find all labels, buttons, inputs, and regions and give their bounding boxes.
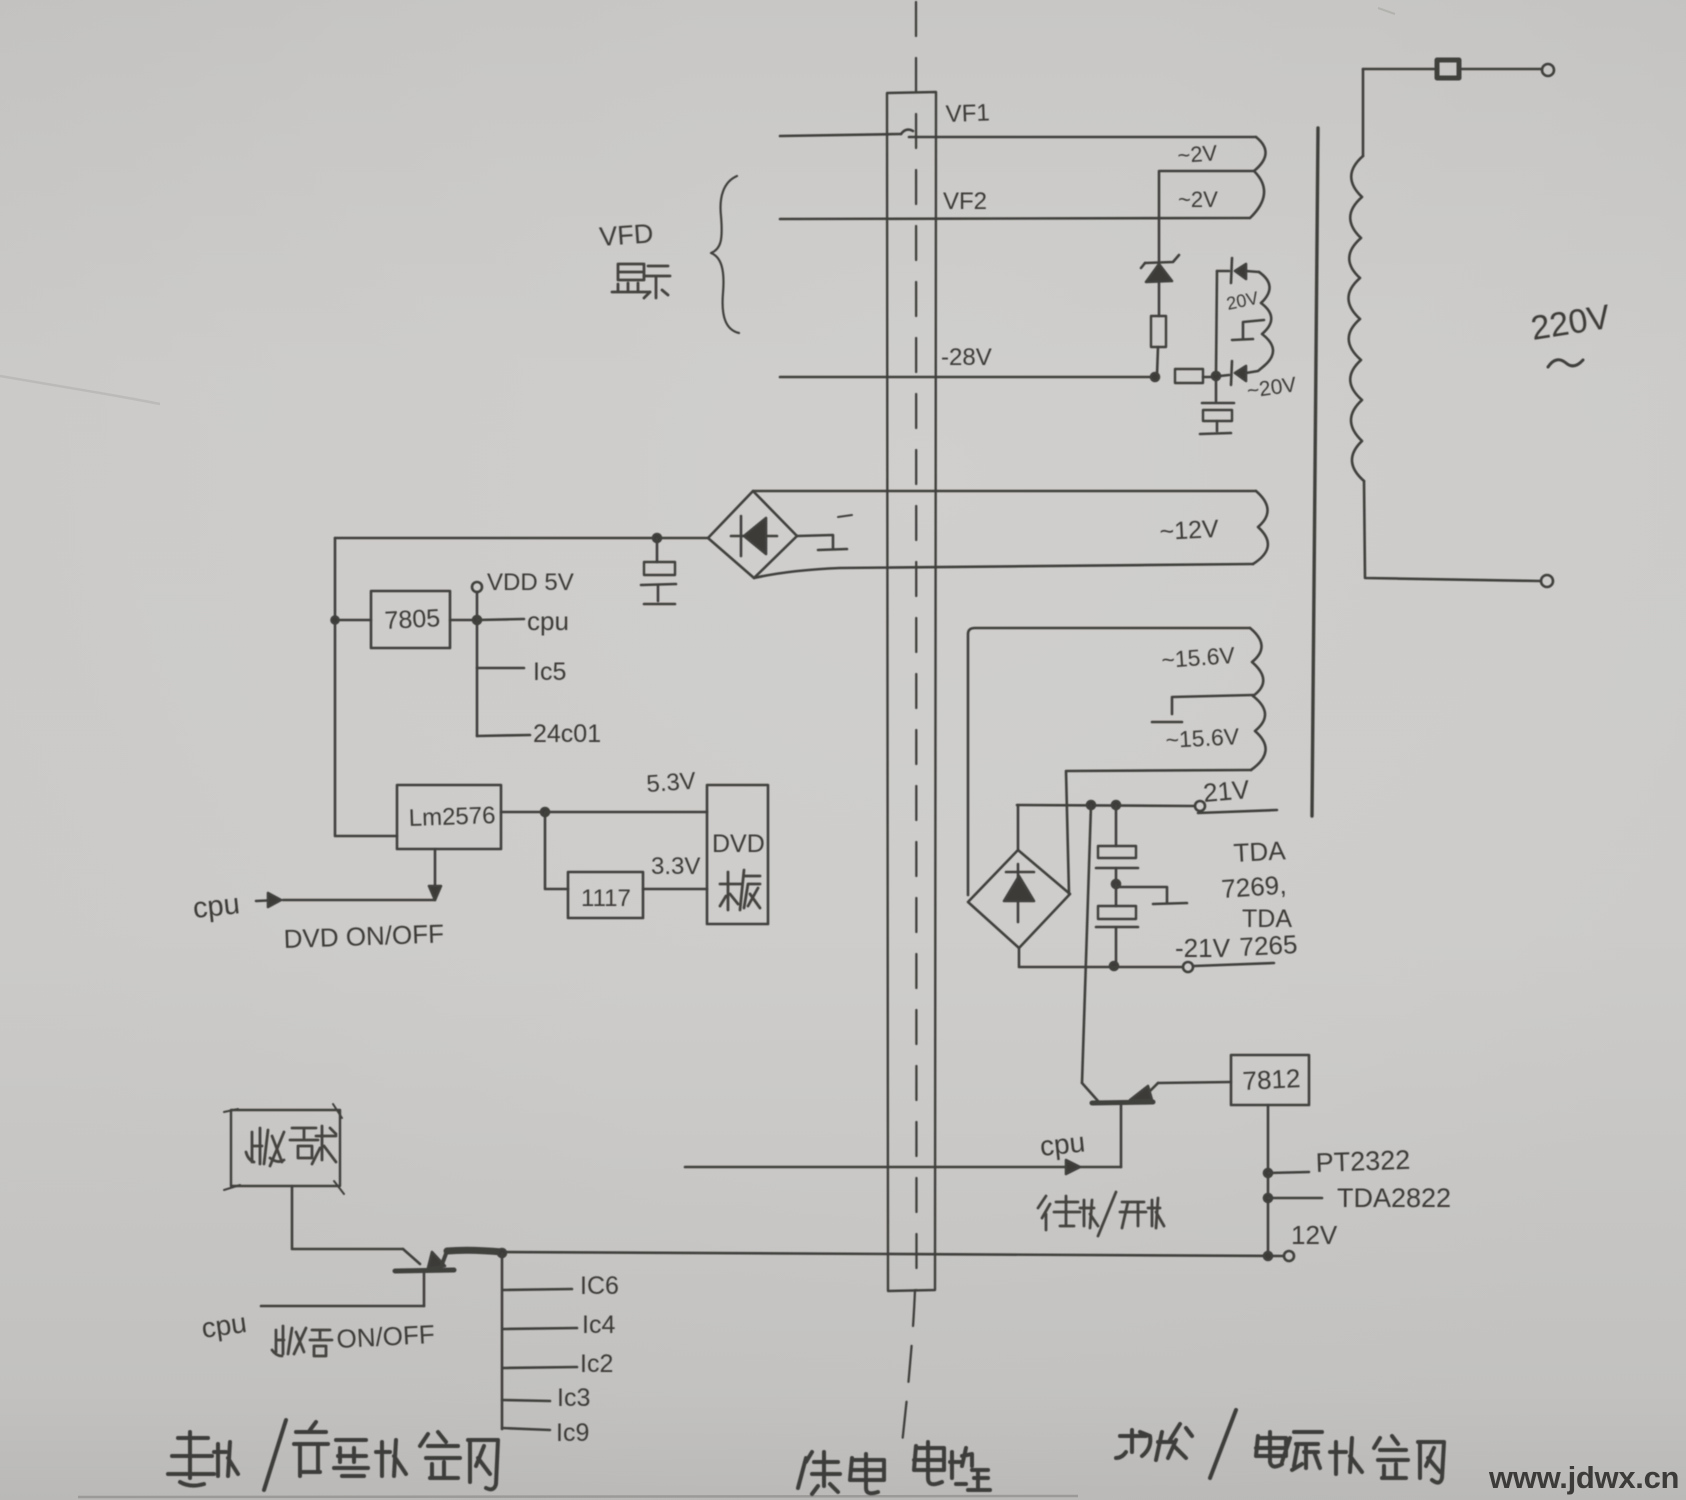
svg-text:21V: 21V: [1202, 774, 1251, 808]
svg-text:cpu: cpu: [527, 606, 569, 636]
wire B2 top corner: [1017, 805, 1020, 850]
wire to IC6: [503, 1289, 572, 1290]
label 主机/前置机箱内 (main unit / front chassis): [168, 1420, 498, 1490]
svg-text:ON/OFF: ON/OFF: [336, 1319, 436, 1354]
paper bottom edge: [78, 1496, 1078, 1497]
wire 15.6V center tap: [1172, 695, 1253, 714]
junction node on -28V wire: [1151, 373, 1159, 381]
svg-text:-21V: -21V: [1175, 933, 1231, 963]
zener diode D1: [1158, 171, 1161, 262]
label 功放/电源机箱内 (amplifier / power chassis): [1116, 1410, 1444, 1483]
wire 15.6V top: [968, 628, 1250, 895]
svg-text:cpu: cpu: [1038, 1126, 1086, 1162]
wire 5.3V to DVD: [545, 811, 707, 814]
bridge rectifier B1: [708, 491, 797, 578]
transistor Q2 (PNP pass): [1092, 1102, 1153, 1103]
svg-text:~15.6V: ~15.6V: [1165, 723, 1240, 753]
label 板 (DVD board): [720, 870, 760, 910]
svg-text:5.3V: 5.3V: [646, 768, 697, 798]
wire to TDA2822: [1264, 1194, 1272, 1202]
svg-text:DVD: DVD: [712, 830, 765, 858]
regulator 1117: [568, 872, 643, 918]
wire 3.3V to DVD: [643, 888, 707, 891]
fuse F1: [1437, 60, 1459, 78]
transformer T1 primary winding: [1362, 69, 1365, 156]
transformer T1 20V winding: [1259, 272, 1273, 366]
svg-text:cpu: cpu: [191, 888, 241, 925]
svg-text:-28V: -28V: [941, 344, 992, 371]
wire -21V rail: [1019, 948, 1182, 967]
label 220V tilde: [1548, 360, 1583, 367]
DVD board box: [707, 785, 768, 924]
svg-text:www.jdwx.cn: www.jdwx.cn: [1488, 1460, 1679, 1495]
svg-text:~2V: ~2V: [1177, 140, 1219, 168]
label 供电电路 (power supply circuit): [798, 1442, 990, 1494]
wire 7805 input: [335, 619, 371, 622]
wire IC supply drop: [498, 1249, 506, 1257]
diode D3: [1231, 258, 1232, 283]
wire cpu standby control: [685, 1166, 1121, 1169]
svg-text:7805: 7805: [384, 604, 441, 635]
transformer T1 ~12V winding: [1253, 491, 1268, 564]
divider dashed centerline: [915, 2, 918, 1290]
wire 15.6V bottom: [1066, 770, 1251, 894]
label 收音板 (radio board): [246, 1126, 336, 1166]
svg-text:7269,: 7269,: [1220, 870, 1287, 904]
transformer core: [1312, 128, 1318, 816]
wire 7805 output: [450, 619, 477, 622]
arrow cpu to dvd on/off: [256, 900, 278, 901]
wire ~12V bottom: [754, 564, 1253, 578]
terminal circle top: [1542, 64, 1554, 76]
wire left rail: [335, 538, 397, 836]
wire Q3 base: [423, 1272, 426, 1306]
svg-text:PT2322: PT2322: [1315, 1145, 1411, 1178]
wire Q3 collector (bold): [447, 1250, 502, 1252]
wire 21V down to Q2: [1082, 805, 1091, 1083]
regulator 7805: [371, 591, 450, 648]
svg-text:~15.6V: ~15.6V: [1161, 642, 1237, 673]
label 待机/开机 (standby/on): [1038, 1192, 1164, 1236]
label 收音 ON/OFF: [272, 1326, 332, 1356]
divider box (power feed bus): [887, 92, 936, 1291]
wire radio on/off control: [261, 1305, 424, 1308]
wire to IC4: [503, 1328, 577, 1329]
wire bridge B1 top / ~12V top: [753, 490, 1256, 493]
wire 7812 output rail: [1267, 1105, 1270, 1256]
wire B1 to left rail: [335, 537, 708, 540]
svg-text:7265: 7265: [1239, 929, 1298, 962]
wire tap to 20V winding top: [1216, 271, 1217, 374]
wire to CPU: [477, 619, 524, 620]
resistor R1: [1151, 316, 1166, 347]
wire +21V rail: [1017, 805, 1194, 806]
svg-text:VFD: VFD: [598, 218, 654, 252]
svg-text:VDD 5V: VDD 5V: [487, 569, 574, 596]
svg-text:Lm2576: Lm2576: [408, 802, 496, 832]
paper crease top-left: [0, 376, 160, 404]
svg-text:~2V: ~2V: [1178, 187, 1218, 212]
wire to 1117: [545, 812, 568, 889]
wire VFD winding center tap: [1160, 170, 1254, 173]
wire 12V rail long: [502, 1252, 1283, 1256]
svg-text:IC6: IC6: [580, 1272, 619, 1300]
bridge rectifier B2: [968, 850, 1070, 948]
brace VFD group: [711, 176, 739, 333]
svg-text:3.3V: 3.3V: [651, 853, 700, 880]
faint mark top right: [1378, 8, 1395, 14]
label 显示 (VFD display): [612, 264, 670, 298]
svg-text:VF2: VF2: [943, 188, 987, 215]
capacitor C2: [656, 538, 659, 562]
svg-text:24c01: 24c01: [533, 720, 601, 748]
svg-text:cpu: cpu: [200, 1307, 249, 1344]
small stray tick: [838, 515, 852, 517]
resistor R2: [1175, 369, 1203, 383]
wire -28V: [780, 376, 1151, 379]
svg-text:~12V: ~12V: [1159, 515, 1220, 546]
wire Q2 to 7812: [1158, 1082, 1231, 1083]
svg-text:TDA2822: TDA2822: [1337, 1183, 1451, 1213]
capacitor C4: [1115, 884, 1118, 906]
wire LM2576 on/off control: [434, 849, 437, 893]
wire LM2576 output: [501, 811, 545, 814]
transformer T1 ~15.6V winding upper: [1250, 628, 1263, 696]
wire Q2 base: [1120, 1105, 1123, 1167]
svg-text:Ic5: Ic5: [533, 658, 566, 686]
wire to IC9: [502, 1428, 550, 1430]
terminal circle bottom: [1541, 575, 1553, 587]
svg-text:DVD ON/OFF: DVD ON/OFF: [283, 918, 444, 954]
connector stub: [797, 535, 833, 549]
svg-text:Ic2: Ic2: [580, 1350, 613, 1378]
wire to IC5: [477, 667, 524, 670]
svg-text:TDA: TDA: [1233, 835, 1287, 868]
capacitor C1: [1215, 380, 1218, 401]
terminal VDD 5V: [472, 582, 482, 592]
wire to IC2: [503, 1367, 577, 1368]
diode D2: [1220, 375, 1229, 376]
transistor Q3 (PNP radio switch): [403, 1249, 420, 1264]
svg-text:Ic3: Ic3: [557, 1384, 590, 1412]
regulator LM2576: [397, 785, 501, 849]
wire radio board to Q3: [292, 1186, 403, 1249]
capacitor C3: [1115, 805, 1118, 846]
wire to IC3: [502, 1400, 550, 1401]
junction node: [1212, 372, 1220, 380]
wire primary top to fuse: [1363, 68, 1434, 71]
svg-text:Ic9: Ic9: [556, 1419, 589, 1447]
svg-text:7812: 7812: [1242, 1063, 1301, 1096]
wire to PT2322: [1264, 1169, 1272, 1177]
wire VDD rail: [476, 592, 479, 736]
wire cap midpoint stub: [1116, 887, 1167, 903]
wire 20V winding center tap: [1243, 320, 1264, 338]
svg-text:1117: 1117: [581, 885, 631, 912]
wire to 24C01: [477, 735, 530, 736]
svg-text:VF1: VF1: [945, 99, 990, 128]
transformer T1 VFD winding (~2V + ~2V): [1250, 137, 1266, 218]
transformer T1 ~15.6V winding lower: [1251, 696, 1266, 770]
svg-text:12V: 12V: [1291, 1220, 1338, 1250]
svg-text:Ic4: Ic4: [582, 1311, 615, 1339]
regulator 7812: [1231, 1055, 1309, 1105]
wire fuse to terminal: [1460, 68, 1541, 71]
junction node: [653, 534, 661, 542]
radio board box: [231, 1110, 340, 1186]
wire VF1: [780, 134, 901, 136]
wire VF2: [780, 218, 1249, 219]
